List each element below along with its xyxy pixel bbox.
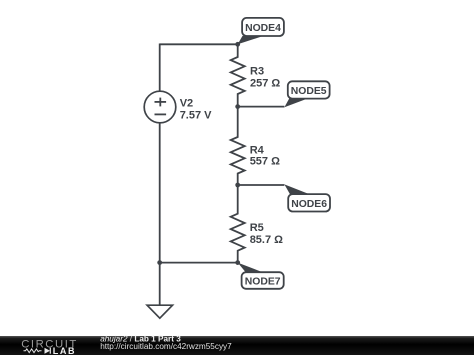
label R3 257 ohm	[250, 66, 280, 90]
svg-text:LAB: LAB	[53, 346, 76, 355]
resistor R4	[231, 107, 245, 185]
svg-text:85.7 Ω: 85.7 Ω	[250, 234, 283, 246]
svg-text:V2: V2	[180, 97, 193, 109]
logo CircuitLab	[21, 338, 78, 355]
footer bar	[0, 336, 474, 355]
node NODE5 flag	[284, 81, 329, 107]
junction node NODE5	[235, 104, 240, 109]
svg-text:NODE4: NODE4	[245, 23, 281, 34]
junction ground node	[157, 260, 162, 265]
svg-text:557 Ω: 557 Ω	[250, 156, 280, 168]
footer url text	[100, 342, 232, 351]
svg-text:NODE5: NODE5	[291, 86, 327, 97]
resistor R5	[231, 185, 245, 263]
wire left vertical lower	[159, 123, 161, 263]
wire NODE5 stub	[238, 106, 285, 108]
wire top horizontal	[160, 43, 238, 45]
svg-text:257 Ω: 257 Ω	[250, 78, 280, 90]
wire left vertical upper	[159, 44, 161, 92]
node NODE7 flag	[238, 263, 284, 289]
voltage source V2	[144, 91, 176, 123]
footer title text	[100, 335, 181, 344]
ground	[147, 305, 172, 318]
resistor R3	[231, 44, 245, 106]
svg-text:R3: R3	[250, 66, 264, 78]
svg-text:R5: R5	[250, 222, 264, 234]
wire ground stem	[159, 263, 161, 305]
junction node NODE6	[235, 183, 240, 188]
svg-text:7.57 V: 7.57 V	[180, 109, 212, 121]
label R4 557 ohm	[250, 145, 280, 168]
wire bottom horizontal	[160, 262, 238, 264]
label V2 7.57 V	[180, 97, 212, 121]
wire NODE6 stub	[238, 184, 285, 186]
label R5 85.7 ohm	[250, 222, 283, 246]
node NODE6 flag	[284, 184, 330, 211]
node NODE4 flag	[238, 18, 284, 44]
svg-text:NODE6: NODE6	[291, 199, 327, 210]
svg-text:NODE7: NODE7	[245, 277, 281, 288]
junction node NODE4	[235, 42, 240, 47]
svg-text:http://circuitlab.com/c42rwzm5: http://circuitlab.com/c42rwzm55cyy7	[100, 342, 232, 351]
junction node NODE7	[235, 260, 240, 265]
